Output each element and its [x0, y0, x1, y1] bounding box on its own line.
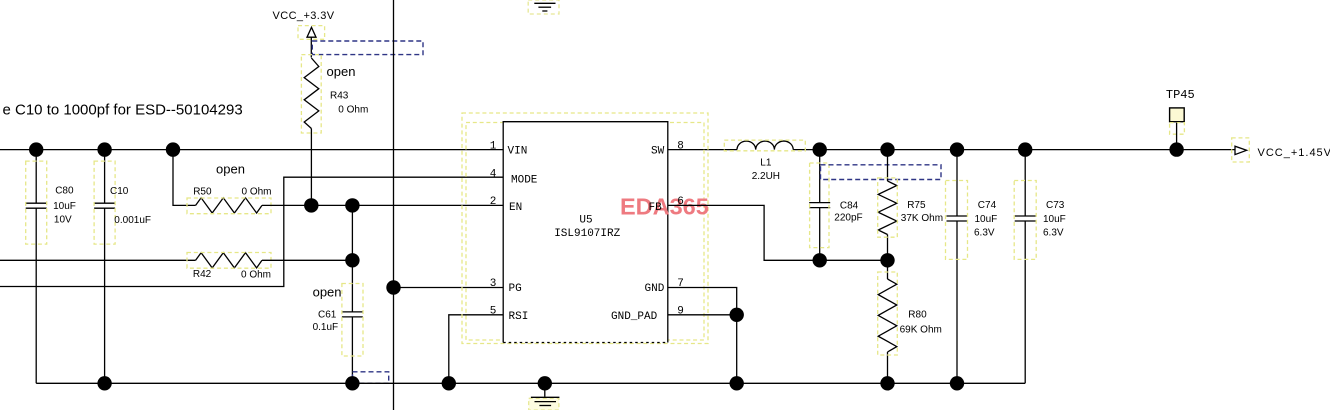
- junction C10/VIN: [97, 142, 111, 156]
- svg-text:VCC_+1.45V: VCC_+1.45V: [1258, 147, 1330, 159]
- svg-text:C10: C10: [110, 186, 129, 197]
- junction R75-R80/FB row: [880, 253, 894, 267]
- svg-text:0.1uF: 0.1uF: [313, 322, 339, 333]
- svg-text:open: open: [327, 64, 356, 79]
- junction R42/C61: [345, 253, 359, 267]
- wire FB feedback: [668, 205, 888, 260]
- resistor R42: [0, 253, 271, 281]
- wire R43 to EN line: [310, 129, 312, 206]
- svg-text:1: 1: [490, 140, 497, 152]
- svg-text:C73: C73: [1046, 200, 1065, 211]
- svg-text:10uF: 10uF: [975, 214, 998, 225]
- power symbol VCC_+3.3V: [273, 10, 335, 58]
- svg-text:FB: FB: [649, 202, 663, 214]
- resistor R75: [878, 150, 943, 261]
- svg-text:220pF: 220pF: [834, 213, 862, 224]
- svg-text:C84: C84: [840, 200, 859, 211]
- svg-text:37K Ohm: 37K Ohm: [901, 213, 943, 224]
- svg-text:9: 9: [677, 306, 684, 318]
- svg-text:RSI: RSI: [509, 311, 529, 323]
- blue dashed rect B3: [821, 165, 942, 180]
- wire R42 to C61 node: [262, 259, 352, 261]
- svg-text:SW: SW: [651, 146, 665, 158]
- svg-text:8: 8: [677, 140, 684, 152]
- junction C61/ground wire: [345, 376, 359, 390]
- svg-text:C74: C74: [978, 200, 997, 211]
- svg-text:2: 2: [490, 196, 497, 208]
- resistor R80: [878, 260, 942, 383]
- svg-text:open: open: [216, 161, 245, 176]
- svg-text:VIN: VIN: [508, 146, 528, 158]
- main wire VIN net: [0, 149, 503, 151]
- ground symbol bottom: [529, 383, 560, 410]
- svg-text:C61: C61: [318, 310, 337, 321]
- junction C74/SW net: [950, 142, 964, 156]
- wire GND_PAD: [668, 314, 737, 316]
- svg-text:7: 7: [677, 278, 684, 290]
- svg-text:e C10 to 1000pf for ESD--50104: e C10 to 1000pf for ESD--50104293: [3, 102, 243, 119]
- svg-text:0 Ohm: 0 Ohm: [241, 270, 271, 281]
- test point TP45: [1166, 88, 1195, 150]
- svg-text:10uF: 10uF: [1043, 214, 1066, 225]
- junction TP45/SW net: [1169, 142, 1183, 156]
- svg-text:PG: PG: [509, 283, 522, 295]
- svg-text:0 Ohm: 0 Ohm: [338, 105, 368, 116]
- bottom ground wire: [36, 382, 1025, 384]
- junction R50 branch/VIN: [166, 142, 180, 156]
- junction C80/VIN: [29, 142, 43, 156]
- svg-text:5: 5: [490, 306, 497, 318]
- blue dashed rect B1: [312, 41, 423, 55]
- svg-text:GND: GND: [645, 283, 665, 295]
- svg-text:R42: R42: [193, 269, 212, 280]
- blue dashed rect B2: [353, 372, 389, 384]
- svg-text:ISL9107IRZ: ISL9107IRZ: [554, 228, 620, 240]
- svg-text:R43: R43: [330, 90, 349, 101]
- capacitor C80: [26, 150, 76, 384]
- junction C84/SW net: [813, 142, 827, 156]
- wire R50 to EN pin: [262, 204, 503, 206]
- wire PG: [394, 287, 504, 289]
- svg-text:EDA365: EDA365: [620, 194, 709, 220]
- svg-text:10V: 10V: [54, 214, 72, 225]
- svg-text:R75: R75: [907, 200, 926, 211]
- IC U5 body: [462, 113, 708, 344]
- inductor L1: [724, 140, 805, 182]
- svg-text:10uF: 10uF: [53, 201, 76, 212]
- svg-text:R80: R80: [908, 310, 927, 321]
- svg-text:open: open: [313, 284, 342, 299]
- svg-text:3: 3: [490, 278, 497, 290]
- svg-text:69K Ohm: 69K Ohm: [900, 325, 942, 336]
- svg-text:VCC_+3.3V: VCC_+3.3V: [273, 10, 335, 22]
- junction C10/ground wire: [97, 376, 111, 390]
- junction GND/GND_PAD: [730, 308, 744, 322]
- svg-text:GND_PAD: GND_PAD: [611, 311, 658, 323]
- svg-text:L1: L1: [760, 157, 772, 168]
- junction C74/ground wire: [950, 376, 964, 390]
- capacitor C61: [313, 205, 363, 383]
- svg-text:C80: C80: [55, 186, 74, 197]
- wire MODE feed: [0, 177, 503, 286]
- capacitor C84: [809, 150, 862, 261]
- long vertical wire: [393, 0, 395, 410]
- SW output wire: [668, 149, 737, 151]
- svg-text:6: 6: [677, 196, 684, 208]
- junction C84/FB row: [813, 253, 827, 267]
- junction ground symbol/ground wire: [538, 376, 552, 390]
- junction C61/EN line: [345, 198, 359, 212]
- resistor R43: [301, 55, 368, 133]
- svg-text:EN: EN: [509, 202, 522, 214]
- svg-text:2.2UH: 2.2UH: [752, 171, 780, 182]
- junction GND/ground wire: [730, 376, 744, 390]
- svg-text:MODE: MODE: [511, 175, 538, 187]
- junction R80/ground wire: [880, 376, 894, 390]
- resistor R50: [187, 161, 272, 213]
- capacitor C74: [946, 150, 998, 384]
- capacitor C73: [1014, 150, 1066, 384]
- junction R75/SW net: [880, 142, 894, 156]
- junction PG/vertical net: [386, 280, 400, 294]
- svg-text:U5: U5: [579, 215, 592, 227]
- svg-text:0.001uF: 0.001uF: [114, 215, 151, 226]
- wire RSI: [449, 315, 503, 384]
- svg-text:4: 4: [490, 169, 497, 181]
- top ground: [528, 0, 559, 14]
- svg-text:R50: R50: [193, 187, 212, 198]
- junction R43/EN line: [304, 198, 318, 212]
- junction RSI/ground wire: [442, 376, 456, 390]
- svg-text:0 Ohm: 0 Ohm: [242, 187, 272, 198]
- port VCC_+1.45V: [1232, 138, 1330, 162]
- capacitor C10: [94, 150, 151, 384]
- wire main to R50: [173, 150, 196, 206]
- svg-text:6.3V: 6.3V: [974, 227, 995, 238]
- svg-text:6.3V: 6.3V: [1043, 227, 1064, 238]
- junction C73/SW net: [1018, 142, 1032, 156]
- svg-text:TP45: TP45: [1166, 88, 1195, 102]
- wire GND: [668, 288, 737, 384]
